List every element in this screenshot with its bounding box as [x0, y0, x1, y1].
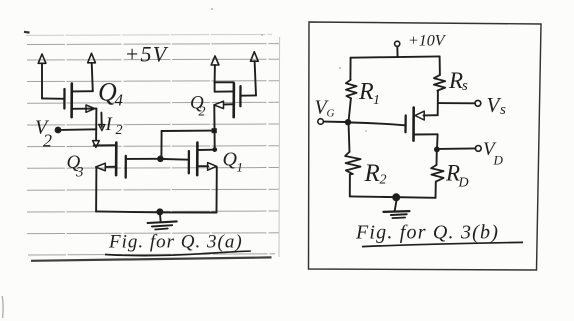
wire: Q2 gate lead [241, 94, 256, 96]
label Q4 [98, 78, 124, 110]
node VD terminal circle [475, 146, 481, 152]
wire: Q2 drain down to Q1 [213, 105, 215, 149]
current arrow I2 [99, 113, 105, 131]
wire: R2 to bottom rail [349, 174, 351, 196]
svg-text:1: 1 [373, 93, 380, 108]
svg-text:G: G [327, 108, 335, 120]
svg-text:3: 3 [75, 165, 84, 181]
svg-text:2: 2 [116, 123, 123, 138]
svg-text:1: 1 [237, 160, 244, 175]
wire: Ub top lead with arrow [415, 111, 438, 120]
resistor R1 [346, 80, 357, 99]
resistor RD [431, 165, 444, 182]
svg-text:2: 2 [380, 173, 387, 188]
wire: V2 to Q4 drain line [61, 128, 96, 131]
transistor Ub channel bar [412, 108, 415, 141]
wire: Q3 gate to middle node [126, 158, 157, 160]
supply arrow A3 [211, 56, 219, 82]
label Rs [448, 68, 468, 94]
wire: R1 to VG node [349, 98, 351, 122]
wire: VG node down to R2 [349, 122, 350, 152]
svg-text:Fig. for Q. 3(b): Fig. for Q. 3(b) [355, 222, 499, 244]
resistor R2 [345, 152, 361, 175]
wire: RD to bottom rail [435, 182, 437, 198]
ruled paper lines [26, 34, 279, 255]
wire: Ub bottom lead [414, 133, 438, 135]
transistor Q2 gate bar [239, 86, 241, 106]
wire: gate node to Q1 gate [164, 158, 189, 161]
wire: A1 to Q4 gate [42, 97, 64, 99]
svg-text:Q: Q [223, 149, 238, 171]
node ground junction blob [392, 193, 400, 201]
ground symbol left [148, 215, 177, 229]
node V2 terminal dot [55, 127, 62, 134]
label Q2 [190, 93, 206, 120]
wire: Q3 source lead with arrow [96, 163, 117, 171]
node Vs terminal circle [475, 100, 481, 106]
wire: cross-couple horizontal [162, 130, 215, 132]
svg-text:s: s [462, 78, 468, 94]
supply arrow A4 [251, 52, 259, 96]
wire: bottom rail b [350, 196, 436, 197]
label R2 [364, 160, 387, 188]
svg-text:s: s [500, 102, 506, 118]
node square dot on Q2 drain wire [212, 128, 217, 133]
label VD [483, 139, 504, 168]
node VG junction dot [345, 119, 351, 125]
svg-text:R: R [364, 160, 380, 187]
svg-text:D: D [458, 176, 469, 191]
wire: VD tap [440, 147, 476, 150]
wire: Q4 drain lead with arrow [72, 105, 97, 112]
svg-text:D: D [493, 153, 504, 168]
transistor Q1 channel bar [196, 143, 199, 176]
transistor Q3 channel bar [115, 143, 118, 176]
wire: gate lead b [351, 123, 405, 126]
wire: top rail to Rs [439, 56, 441, 75]
supply arrow A2 [88, 53, 96, 91]
wire: Q1 drain lead [198, 149, 215, 151]
node Q1 drain junction dot [212, 147, 217, 152]
stray ink dash top-left [24, 31, 30, 34]
supply arrow A1 [38, 54, 46, 98]
ground symbol right [383, 201, 409, 218]
label Q1 [223, 149, 244, 175]
svg-text:R: R [448, 68, 463, 93]
wire: Q2 source step [215, 82, 234, 91]
transistor Q4 channel bar [70, 84, 73, 118]
caption Fig. for Q. 3(a) [105, 232, 251, 256]
wire: Ub source up to Rs [437, 91, 439, 116]
svg-text:R: R [358, 79, 374, 105]
node VD junction dot [434, 147, 440, 153]
svg-text:+10V: +10V [408, 33, 447, 50]
wire: top rail to R1 [349, 58, 351, 80]
transistor Q1 gate bar [188, 151, 190, 173]
wire: VD node to RD [436, 149, 438, 165]
wire: top rail b [351, 56, 440, 57]
svg-text:+5V: +5V [125, 42, 169, 67]
transistor Q2 channel bar [232, 84, 235, 118]
wire: bottom rail [96, 211, 216, 212]
node +10V terminal circle [395, 41, 400, 46]
wire: Q2 drain lead with arrow [214, 101, 234, 108]
label RD [445, 161, 469, 191]
paper bottom dark edge [31, 257, 272, 260]
wire: Ub drain down [436, 134, 439, 149]
transistor Ub gate bar [404, 116, 407, 133]
faint scan specks [1, 296, 4, 318]
node gates junction dot [157, 156, 164, 163]
wire: +10V stub [396, 47, 398, 58]
wire: Q3 source down to rail [95, 168, 97, 212]
wire: Q1 source down to rail [216, 167, 218, 213]
wire: riser from gate node [160, 131, 162, 158]
label VG [315, 97, 335, 120]
wire: Q1 source lead with arrow [198, 163, 217, 171]
svg-text:Fig. for Q. 3(a): Fig. for Q. 3(a) [108, 232, 243, 253]
transistor Q3 gate bar [125, 156, 127, 178]
wire: Q4 source lead [72, 90, 93, 92]
svg-text:2: 2 [199, 105, 206, 120]
wire: Vs tap [438, 102, 475, 104]
caption Fig. for Q. 3(b) [355, 222, 523, 247]
paper right faint edge [278, 37, 281, 257]
label V2 [35, 117, 52, 151]
svg-text:4: 4 [115, 91, 124, 110]
transistor Q4 gate bar [63, 89, 65, 109]
wire: Q3 drain lead [94, 144, 117, 146]
wire: VG to junction [324, 121, 345, 123]
label Q3 [67, 152, 84, 181]
svg-text:2: 2 [43, 131, 52, 151]
box frame of figure b [309, 22, 542, 270]
label I2 [105, 114, 123, 138]
node ground junction dot [156, 208, 163, 215]
node VG terminal circle [318, 119, 324, 125]
wire: Q4 drain down to Q3 [93, 109, 100, 148]
label R1 [358, 79, 380, 108]
resistor Rs [434, 75, 445, 91]
label Vs [487, 93, 507, 118]
